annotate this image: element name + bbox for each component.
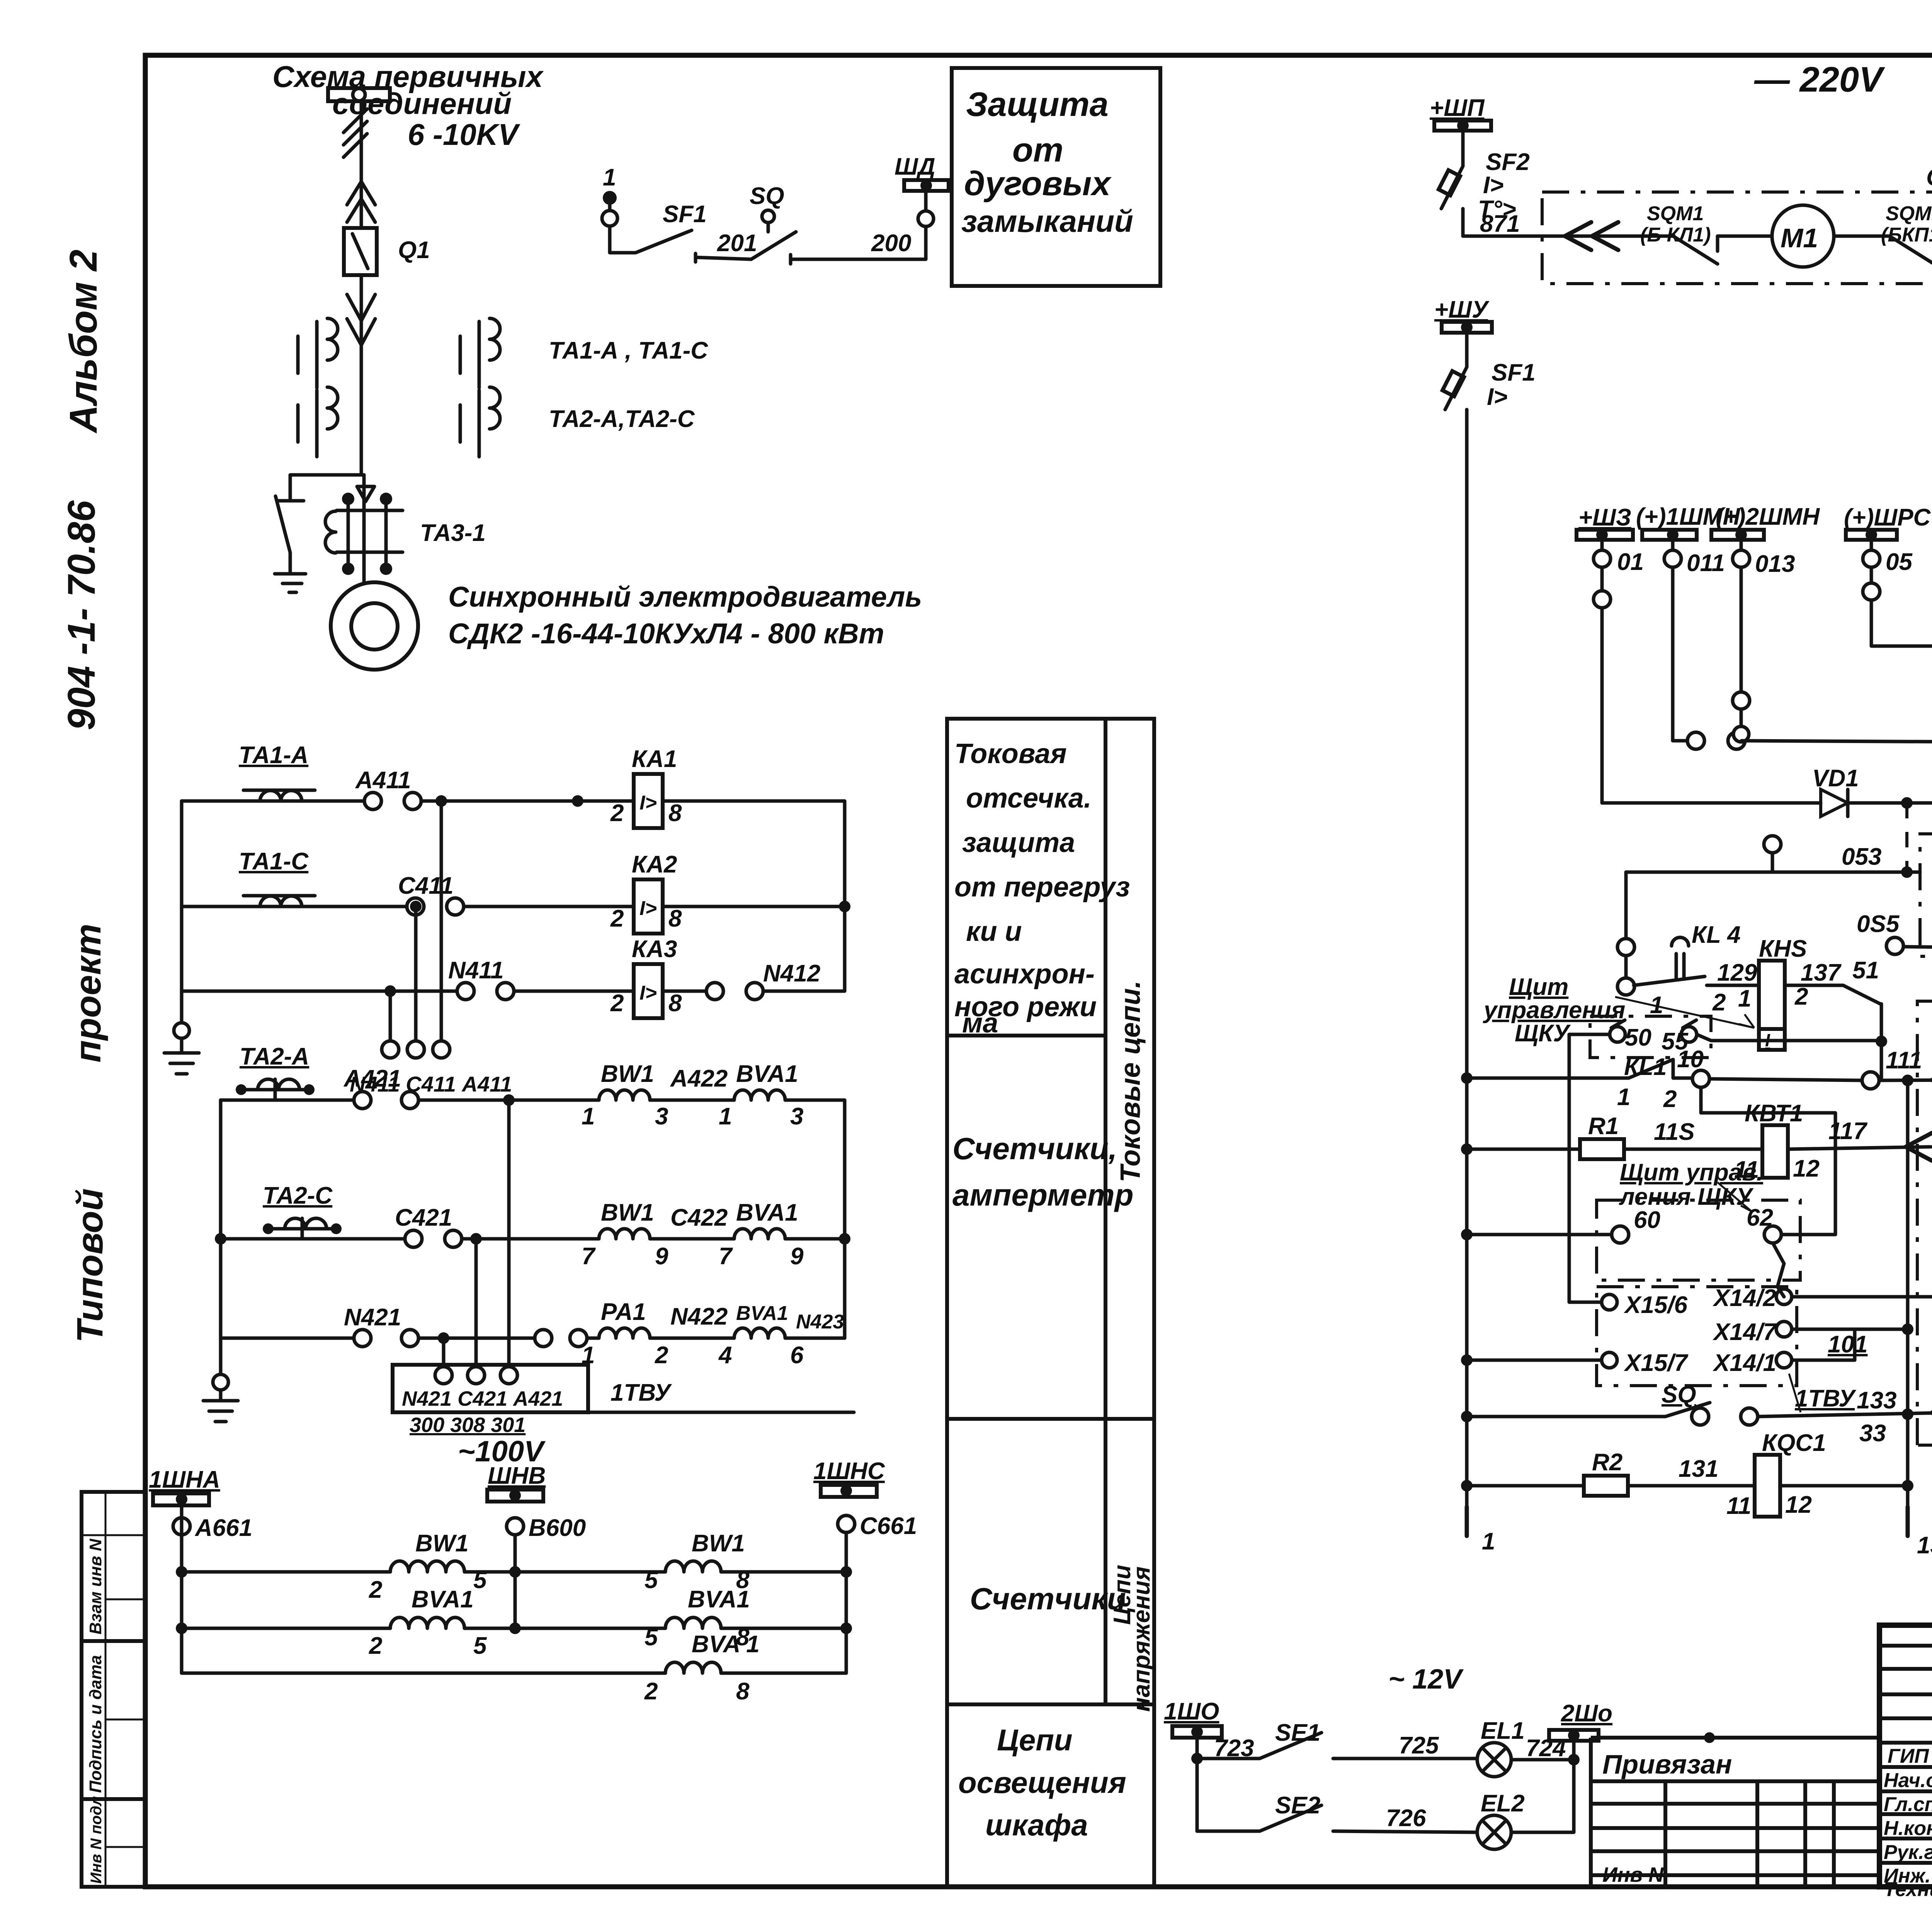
attachment stamp box	[1591, 1732, 1879, 1887]
busbar 1ШО	[1164, 1698, 1222, 1738]
svg-text:013: 013	[1755, 551, 1795, 577]
wire N421 mid	[418, 1337, 536, 1340]
dashed box ЩКУ terminals 60 62	[1597, 1200, 1800, 1280]
diode VD1	[1812, 765, 1859, 816]
legend text Токовая отсечка	[954, 738, 1130, 1039]
wire bus to X15/7	[1461, 1354, 1473, 1366]
wire row N411	[182, 990, 458, 993]
wire from node 1 down to SF1 row	[610, 226, 636, 253]
svg-text:SF2: SF2	[1486, 149, 1530, 175]
svg-text:КА1: КА1	[632, 746, 677, 772]
svg-text:Защита: Защита	[966, 85, 1109, 123]
arrow chevrons down	[347, 294, 375, 345]
label Щит управ ления ЩКУ lower	[1619, 1159, 1763, 1211]
relay KHS with I element	[1738, 935, 1808, 1050]
svg-text:EL2: EL2	[1481, 1790, 1525, 1817]
breaker SF1 left	[1442, 333, 1536, 413]
wire 201	[696, 253, 751, 262]
svg-text:5: 5	[645, 1624, 658, 1651]
wire 726 to EL2	[1333, 1831, 1477, 1832]
dashed box X15 X14	[1597, 1287, 1797, 1386]
svg-text:Цепи: Цепи	[997, 1723, 1073, 1757]
svg-text:ТА2-А: ТА2-А	[240, 1043, 309, 1070]
terminal 62	[1764, 1226, 1781, 1243]
svg-text:ТА3-1: ТА3-1	[420, 520, 486, 546]
label Синхронный электродвигатель	[448, 581, 922, 650]
wire row C411	[182, 905, 408, 908]
svg-text:от перегруз: от перегруз	[954, 872, 1130, 903]
svg-text:КL1: КL1	[1624, 1054, 1667, 1080]
svg-text:напряжения: напряжения	[1128, 1566, 1155, 1712]
button SB1 dashed box	[1920, 806, 1932, 956]
terminal C421 right	[445, 1230, 462, 1247]
switch SQ	[1662, 1381, 1758, 1425]
wire to M1	[1718, 235, 1772, 238]
arrows left motor row	[1565, 222, 1618, 250]
terminal C421 left	[405, 1230, 422, 1247]
wire 724 to 2ШО	[1511, 1740, 1574, 1760]
wire 871	[1463, 235, 1542, 238]
busbar 2ШО	[1549, 1700, 1612, 1741]
left bus current rows	[180, 801, 184, 1022]
svg-text:SF1: SF1	[1492, 359, 1536, 386]
left bus TA2 rows	[219, 1100, 223, 1374]
CT TA2-C winding on row C421	[263, 1218, 342, 1239]
svg-text:ГИП: ГИП	[1888, 1745, 1929, 1767]
terminal N421 right	[401, 1330, 418, 1347]
svg-text:5: 5	[645, 1567, 658, 1594]
wire A421 to BW1	[418, 1099, 599, 1102]
terminal N411 left	[457, 983, 474, 1000]
ground terminal circle	[174, 1023, 189, 1038]
svg-text:904 -1- 70.86: 904 -1- 70.86	[60, 500, 103, 730]
svg-text:Щит: Щит	[1509, 974, 1568, 1000]
coil BVA1 row A421	[719, 1061, 803, 1130]
svg-text:Синхронный электродвигатель: Синхронный электродвигатель	[448, 581, 922, 613]
coil BW1 row A421	[582, 1061, 668, 1130]
svg-text:9: 9	[655, 1243, 668, 1270]
svg-text:Альбом 2: Альбом 2	[62, 250, 105, 434]
main left control bus wire 1	[1465, 410, 1469, 1507]
svg-text:7: 7	[719, 1243, 733, 1270]
svg-text:Щит управ.: Щит управ.	[1620, 1159, 1763, 1186]
wire feeder vertical	[360, 101, 363, 228]
svg-text:РА1: РА1	[601, 1299, 646, 1325]
wire 111 into dashed box	[1879, 1080, 1932, 1080]
wire 50 to X15-6	[1569, 1034, 1610, 1302]
svg-text:Подпись и дата: Подпись и дата	[86, 1655, 105, 1793]
svg-text:133: 133	[1917, 1532, 1932, 1559]
svg-text:05: 05	[1886, 549, 1913, 575]
tap verticals to 1TVU box	[444, 1100, 509, 1367]
svg-text:С422: С422	[670, 1204, 728, 1231]
svg-text:1: 1	[719, 1103, 732, 1130]
label Щит управления ЩКУ upper	[1483, 974, 1754, 1047]
CT TA1-C winding on row C411	[243, 896, 315, 906]
wire 115 row	[1461, 1143, 1473, 1155]
svg-text:В600: В600	[529, 1515, 586, 1541]
svg-text:освещения: освещения	[958, 1765, 1126, 1799]
box Защита от дуговых замыканий	[952, 68, 1160, 286]
svg-text:ШНВ: ШНВ	[488, 1463, 546, 1489]
terminal pair on KL4 row	[1687, 732, 1704, 749]
svg-text:+ШЗ: +ШЗ	[1578, 504, 1631, 531]
svg-text:А661: А661	[194, 1515, 252, 1541]
wire KL4 coil row	[1742, 741, 1932, 742]
svg-text:8: 8	[736, 1678, 750, 1705]
CT TA1-C	[460, 318, 500, 388]
svg-text:(Б КЛ1): (Б КЛ1)	[1640, 224, 1711, 246]
svg-text:5: 5	[473, 1633, 487, 1659]
earthing switch blade	[276, 496, 304, 574]
wire from 1ШО down	[1196, 1738, 1199, 1831]
svg-text:ки и: ки и	[966, 916, 1022, 947]
svg-text:КL 4: КL 4	[1692, 922, 1741, 948]
motor M synchronous	[331, 582, 418, 670]
wire below Q1	[361, 275, 364, 582]
test terminal C411	[407, 1041, 424, 1058]
busbar (+)1ШМН	[1636, 503, 1740, 577]
coil BVA1 row C421	[719, 1199, 804, 1270]
svg-text:60: 60	[1634, 1207, 1660, 1233]
svg-text:11: 11	[1726, 1493, 1751, 1519]
wire VD1 row	[1602, 801, 1821, 805]
contact SQM1 (БКЛ1) left	[1640, 202, 1718, 264]
svg-text:2: 2	[1794, 983, 1808, 1010]
svg-text:1: 1	[1482, 1528, 1495, 1555]
wire to PA1 coil	[587, 1337, 599, 1340]
svg-text:51: 51	[1852, 957, 1879, 984]
wire from 01 down	[1600, 567, 1604, 591]
coil PA1 row N421	[582, 1299, 668, 1369]
svg-text:1: 1	[603, 164, 616, 191]
wire A422	[650, 1099, 734, 1102]
svg-text:50: 50	[1625, 1024, 1651, 1051]
relay KA2	[610, 851, 682, 934]
svg-text:726: 726	[1386, 1805, 1426, 1832]
svg-text:SQ: SQ	[1662, 1381, 1696, 1408]
svg-text:2: 2	[610, 800, 624, 827]
title block frame	[1879, 1625, 1932, 1887]
arrow chevrons up	[347, 182, 375, 222]
relay KQC1	[1726, 1430, 1826, 1519]
svg-text:Токовые цепи.: Токовые цепи.	[1115, 981, 1146, 1183]
test stub terminal on 053 row	[1771, 853, 1774, 872]
svg-text:SE1: SE1	[1275, 1719, 1320, 1746]
resistor R1	[1580, 1113, 1624, 1159]
svg-text:BVA 1: BVA 1	[692, 1631, 760, 1658]
svg-text:129: 129	[1717, 959, 1757, 986]
svg-text:6 -10KV: 6 -10KV	[408, 117, 520, 151]
svg-text:асинхрон-: асинхрон-	[954, 959, 1095, 990]
wire row3 to C661 vertical	[721, 1672, 846, 1675]
svg-text:200: 200	[871, 230, 911, 257]
svg-text:Взам инв N: Взам инв N	[86, 1538, 105, 1634]
svg-text:6: 6	[790, 1342, 804, 1369]
wire 115 to KBT1	[1624, 1148, 1762, 1151]
busbar ШД	[895, 153, 949, 211]
contact SQM1 (БКП1) right	[1881, 202, 1932, 264]
contact KL1 row	[1461, 1046, 1704, 1112]
terminal 055	[1886, 937, 1903, 954]
wire EL2 to 2ШО vertical	[1511, 1760, 1574, 1832]
tap wires to test terminals N411 C411 A411	[390, 801, 441, 1041]
wire 10 branch down to KBT1 link	[1701, 1087, 1835, 1235]
busbar +ШЗ	[1577, 504, 1644, 575]
svg-text:отсечка.: отсечка.	[966, 783, 1092, 814]
relay KA1	[610, 746, 682, 828]
wire from 011 down	[1673, 567, 1686, 741]
svg-text:ТА2-С: ТА2-С	[263, 1182, 333, 1209]
svg-text:ТА2-А,ТА2-С: ТА2-А,ТА2-С	[549, 406, 695, 432]
svg-text:1ТВУ: 1ТВУ	[611, 1379, 672, 1406]
svg-text:1ШНС: 1ШНС	[813, 1458, 885, 1485]
svg-text:137: 137	[1801, 959, 1842, 986]
svg-text:8: 8	[668, 800, 682, 827]
wire diode to capacitor	[1848, 801, 1932, 805]
svg-text:SQ: SQ	[750, 183, 784, 209]
terminal PA1 left	[535, 1330, 552, 1347]
ground symbol TA2 bus	[203, 1390, 238, 1422]
vertical from C661 down	[845, 1532, 848, 1673]
CT TA2-A winding on row A421	[236, 1079, 315, 1100]
svg-text:2Шо: 2Шо	[1561, 1700, 1612, 1727]
wire 55 to 111 drop	[1697, 1034, 1881, 1041]
breaker SF2 left	[1439, 131, 1530, 236]
svg-text:1ШНА: 1ШНА	[149, 1466, 220, 1493]
wire 200 to ШД	[791, 226, 926, 259]
svg-text:SQМ1: SQМ1	[1647, 202, 1704, 225]
terminal X15/7	[1602, 1352, 1617, 1368]
terminal C661	[838, 1515, 855, 1532]
svg-text:ЩКУ: ЩКУ	[1515, 1020, 1571, 1047]
busbar (+)2ШМН	[1711, 503, 1820, 577]
wire row C421	[221, 1237, 406, 1241]
svg-text:0S5: 0S5	[1857, 911, 1900, 937]
svg-text:1: 1	[582, 1103, 595, 1130]
svg-text:871: 871	[1480, 211, 1520, 237]
svg-text:7: 7	[582, 1243, 596, 1270]
wire 137	[1785, 984, 1843, 987]
svg-text:9: 9	[790, 1243, 804, 1270]
label КЛ4 aux	[1672, 922, 1741, 980]
ground symbol left bus	[164, 1038, 199, 1074]
terminal 10	[1692, 1070, 1709, 1087]
terminal X15/6	[1602, 1294, 1617, 1310]
wire row C421 to right vertical	[785, 1239, 845, 1338]
svg-text:А422: А422	[670, 1065, 728, 1092]
svg-text:КНS: КНS	[1759, 935, 1807, 962]
coil BVA1 voltage row3	[644, 1631, 760, 1705]
wire row A411	[182, 799, 365, 803]
CT TA3-1	[325, 493, 403, 575]
terminal C411 right	[447, 898, 464, 915]
arrows 117 left	[1906, 1133, 1932, 1161]
switch SE1	[1197, 1719, 1321, 1759]
wire 131 to KQC1	[1628, 1484, 1755, 1488]
svg-text:Счетчики: Счетчики	[970, 1582, 1126, 1616]
wire N412 to right vertical	[763, 906, 845, 991]
wire A411 to KA1	[421, 799, 634, 803]
title Схема первичных соединений 6-10KV	[272, 60, 544, 151]
coil BVA1 voltage row2 right	[645, 1586, 750, 1651]
svg-text:12: 12	[1793, 1155, 1820, 1182]
svg-text:N411: N411	[448, 957, 504, 984]
svg-text:N423: N423	[796, 1311, 844, 1333]
svg-text:01: 01	[1617, 549, 1644, 575]
wire 055 to SB1	[1903, 947, 1932, 947]
svg-text:Q 1: Q 1	[1926, 164, 1932, 191]
svg-text:замыканий: замыканий	[961, 204, 1133, 238]
svg-text:КQС1: КQС1	[1762, 1430, 1826, 1456]
test terminal N411	[382, 1041, 399, 1058]
svg-text:SF1: SF1	[663, 201, 707, 228]
wire 053 row	[1626, 871, 1920, 874]
svg-text:от: от	[1012, 131, 1063, 169]
svg-text:300 308 301: 300 308 301	[410, 1413, 526, 1437]
busbar 1ШНА	[149, 1466, 220, 1505]
svg-text:I>: I>	[1487, 384, 1507, 410]
svg-text:11S: 11S	[1654, 1119, 1695, 1145]
wire 117	[1788, 1147, 1930, 1149]
terminal N421 left	[354, 1330, 371, 1347]
wire N411 to KA3	[514, 990, 634, 993]
left stamp box Инв. N подл.	[82, 1796, 145, 1887]
terminal X14/1	[1776, 1352, 1792, 1368]
svg-text:КА2: КА2	[632, 851, 677, 878]
svg-text:R2: R2	[1592, 1449, 1622, 1476]
svg-text:С411: С411	[398, 872, 454, 899]
terminal PA1 right	[570, 1330, 587, 1347]
dashed box 50 55	[1590, 1016, 1711, 1058]
relay KBT1	[1734, 1125, 1820, 1183]
winding delta symbol	[357, 486, 374, 502]
svg-text:725: 725	[1399, 1732, 1439, 1759]
svg-text:BVA1: BVA1	[736, 1302, 788, 1325]
svg-text:8: 8	[668, 905, 682, 932]
ground terminal TA2 bus	[213, 1374, 228, 1390]
svg-text:I>: I>	[639, 792, 657, 814]
wire SQ row	[1461, 1411, 1473, 1422]
svg-text:N421: N421	[344, 1304, 401, 1331]
svg-text:Счетчики,: Счетчики,	[952, 1131, 1117, 1166]
left stamp box Взам. инв. N	[82, 1492, 145, 1641]
wire C411 to KA2	[464, 905, 634, 908]
svg-text:+ШП: +ШП	[1430, 95, 1485, 121]
vertical 133 bus	[1906, 1080, 1910, 1507]
svg-text:2: 2	[369, 1577, 382, 1603]
svg-text:ма: ма	[962, 1008, 998, 1039]
terminal X14/2	[1776, 1289, 1792, 1304]
svg-text:SQМ1: SQМ1	[1886, 202, 1932, 225]
wire C422	[650, 1237, 734, 1241]
wire X14/2 row long	[1792, 1295, 1932, 1299]
busbar 1ШНС	[813, 1458, 885, 1497]
wire row2 to C661 vertical	[721, 1627, 846, 1630]
svg-text:BVA1: BVA1	[736, 1061, 798, 1087]
junction on row A411	[572, 795, 583, 807]
svg-text:SE2: SE2	[1275, 1792, 1320, 1819]
CT TA1-A	[298, 318, 338, 388]
svg-text:С661: С661	[860, 1513, 917, 1539]
busbar 6-10kV	[328, 88, 390, 101]
svg-text:101: 101	[1828, 1331, 1867, 1358]
svg-text:Гл.спец: Гл.спец	[1884, 1793, 1932, 1816]
svg-text:62: 62	[1747, 1204, 1773, 1231]
svg-text:EL1: EL1	[1481, 1718, 1525, 1744]
svg-text:А411: А411	[355, 767, 411, 794]
wire row N421 to right vertical	[785, 1337, 845, 1340]
svg-text:Привязан: Привязан	[1602, 1749, 1732, 1779]
wire voltage row 3	[182, 1672, 665, 1675]
svg-text:N412: N412	[763, 960, 820, 987]
svg-text:(+)ШРС: (+)ШРС	[1844, 504, 1931, 531]
svg-text:амперметр: амперметр	[952, 1178, 1134, 1212]
svg-text:10: 10	[1677, 1046, 1704, 1073]
node 1 stub top	[602, 164, 617, 226]
svg-text:2: 2	[369, 1633, 382, 1659]
terminal block 1TVU box	[393, 1365, 588, 1437]
svg-text:М1: М1	[1781, 223, 1818, 253]
busbar (+)ШРС	[1844, 504, 1931, 575]
svg-text:1ТВУ: 1ТВУ	[1795, 1385, 1856, 1412]
wire KA1 to right vertical	[663, 801, 845, 906]
big dashed interconnection box	[1917, 1001, 1932, 1445]
svg-text:R1: R1	[1588, 1113, 1619, 1139]
svg-text:КА3: КА3	[632, 936, 677, 963]
busbar ШНВ	[487, 1463, 546, 1502]
svg-text:X14/1: X14/1	[1713, 1350, 1776, 1376]
svg-text:I>: I>	[639, 897, 657, 920]
svg-text:1ШО: 1ШО	[1164, 1698, 1219, 1725]
wire X14/7 to 133 vertical	[1792, 1328, 1908, 1331]
wire SQ to dashed box	[1758, 1412, 1932, 1417]
svg-text:ТА1-С: ТА1-С	[239, 848, 309, 875]
svg-text:2: 2	[644, 1678, 658, 1705]
switch SE2	[1197, 1792, 1321, 1831]
svg-text:~ 12V: ~ 12V	[1388, 1664, 1464, 1695]
wire row A421 to right vertical	[785, 1100, 845, 1239]
wire row2 mid	[464, 1627, 665, 1630]
svg-text:С421: С421	[395, 1204, 452, 1231]
lamp EL2	[1477, 1790, 1525, 1849]
svg-text:33: 33	[1859, 1420, 1886, 1447]
svg-text:117: 117	[1828, 1118, 1867, 1145]
terminal N412 left	[706, 983, 723, 1000]
svg-text:133: 133	[1857, 1387, 1896, 1414]
terminal A411 left	[364, 793, 381, 810]
hatch marks on feeder	[344, 109, 367, 157]
svg-text:011: 011	[1687, 550, 1725, 577]
svg-text:защита: защита	[962, 827, 1075, 858]
svg-text:BW1: BW1	[601, 1199, 654, 1226]
lamp EL1	[1477, 1718, 1525, 1777]
contact KHS operated row	[1634, 976, 1759, 985]
svg-text:Токовая: Токовая	[954, 738, 1067, 769]
CT TA1-A winding on row A411	[243, 790, 315, 801]
wire N422	[650, 1337, 734, 1340]
legend text Цепи освещения шкафа	[958, 1723, 1126, 1842]
svg-text:СДК2 -16-44-10КУхЛ4 - 800 кВт: СДК2 -16-44-10КУхЛ4 - 800 кВт	[448, 617, 884, 650]
wire KA3 to N412	[663, 990, 707, 993]
switch SF1 arc protection	[636, 201, 707, 253]
junction taps on A421	[503, 1094, 515, 1106]
svg-text:+ШУ: +ШУ	[1434, 296, 1490, 323]
svg-text:BVA1: BVA1	[412, 1586, 474, 1613]
svg-text:Инв N: Инв N	[1602, 1863, 1664, 1886]
svg-text:201: 201	[717, 230, 757, 257]
vertical from B600	[514, 1535, 517, 1628]
